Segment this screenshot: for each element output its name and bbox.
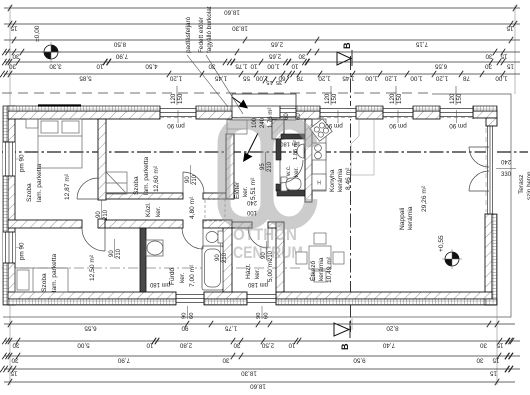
room label Etkezo (white box)	[306, 238, 333, 283]
svg-text:210: 210	[268, 250, 274, 261]
svg-text:12,50 m²: 12,50 m²	[89, 254, 96, 281]
south band wall piece 2	[105, 220, 183, 228]
svg-text:90: 90	[261, 252, 267, 259]
svg-text:pm 180: pm 180	[247, 281, 268, 287]
svg-text:30: 30	[12, 341, 20, 348]
svg-text:90: 90	[182, 313, 188, 319]
svg-text:30: 30	[222, 356, 230, 363]
bed Szoba3	[15, 268, 68, 292]
svg-text:90: 90	[215, 254, 221, 261]
kitchen counter	[312, 119, 326, 191]
level marker 0,00	[44, 45, 58, 59]
bathtub Furdo	[202, 246, 223, 290]
svg-text:15: 15	[10, 24, 18, 31]
svg-text:szín beton: szín beton	[526, 171, 530, 200]
corridor north wall east part	[203, 193, 226, 199]
lintel mark over top wall	[38, 104, 81, 106]
bottom window size labels 90/60	[187, 306, 189, 319]
svg-text:10: 10	[96, 62, 104, 69]
svg-text:pm 90: pm 90	[19, 154, 26, 172]
kitchen sink	[312, 143, 326, 160]
corridor north wall west part	[106, 193, 183, 199]
svg-text:30: 30	[485, 62, 493, 69]
svg-text:fagyálló burkolat: fagyálló burkolat	[206, 6, 213, 53]
window bottom Furdo 90/60	[176, 292, 204, 305]
svg-text:90: 90	[256, 313, 262, 319]
dimension row top total y=8	[4, 7, 520, 9]
svg-text:1,75: 1,75	[235, 62, 248, 69]
svg-text:Fedett előtér: Fedett előtér	[198, 16, 205, 53]
svg-text:pm 180: pm 180	[149, 281, 170, 287]
dining table Etkezo	[296, 233, 344, 282]
WC / Konyha wall	[305, 119, 312, 202]
door WC	[279, 160, 281, 183]
svg-text:pm 90: pm 90	[167, 122, 185, 129]
toilet WC room	[281, 177, 287, 191]
svg-text:1,00: 1,00	[495, 74, 508, 81]
svg-text:7,90: 7,90	[117, 356, 130, 363]
svg-text:8,46 m²: 8,46 m²	[345, 167, 352, 190]
bottom-right corner join	[485, 299, 497, 305]
dimension row top row6 y=74	[4, 73, 520, 75]
svg-text:78: 78	[463, 74, 471, 81]
svg-text:5,00 m²: 5,00 m²	[267, 259, 274, 282]
closet Elotér	[227, 120, 247, 134]
svg-text:1,00: 1,00	[365, 74, 378, 81]
svg-text:5,85: 5,85	[79, 74, 92, 81]
svg-text:6,55: 6,55	[434, 62, 447, 69]
svg-text:OTTHON: OTTHON	[233, 225, 297, 244]
svg-text:10: 10	[288, 341, 296, 348]
top outer wall segment 3 (WC)	[296, 111, 320, 119]
svg-text:15: 15	[507, 62, 515, 69]
svg-text:3,30: 3,30	[49, 62, 62, 69]
svg-text:2,80: 2,80	[179, 341, 192, 348]
main horizontal axis A	[2, 151, 528, 153]
svg-text:pm 90: pm 90	[19, 242, 26, 260]
svg-text:90: 90	[181, 324, 189, 331]
wardrobe Szoba2	[106, 172, 127, 194]
window size label 120/150	[330, 86, 332, 105]
svg-text:1,00: 1,00	[267, 62, 280, 69]
svg-text:Szoba: Szoba	[133, 176, 140, 195]
eaves outline right solid	[3, 94, 511, 317]
svg-text:30: 30	[298, 52, 306, 59]
svg-text:Étkező: Étkező	[308, 261, 317, 281]
svg-text:7,15: 7,15	[415, 40, 428, 47]
svg-text:±0,00: ±0,00	[34, 25, 41, 42]
window bottom Hazt 90/60	[247, 292, 276, 305]
svg-text:ker.: ker.	[179, 272, 186, 283]
WC west wall stub lower	[276, 184, 281, 191]
svg-text:10: 10	[146, 341, 154, 348]
svg-text:15: 15	[506, 24, 514, 31]
section marker B bottom	[334, 323, 349, 336]
svg-text:H: H	[317, 181, 321, 187]
svg-text:Közl.: Közl.	[145, 202, 152, 217]
top outer wall segment 2	[196, 111, 232, 119]
section line B-B vertical	[350, 56, 352, 332]
svg-text:100: 100	[252, 117, 258, 128]
svg-text:90: 90	[96, 211, 102, 218]
svg-text:ker.: ker.	[155, 206, 162, 217]
svg-text:4,80 m²: 4,80 m²	[189, 196, 196, 219]
svg-text:Szoba: Szoba	[26, 183, 33, 202]
svg-text:B: B	[342, 42, 352, 49]
dimension row top row5 y=62	[4, 61, 520, 63]
fridge	[312, 174, 326, 190]
svg-text:210: 210	[267, 161, 273, 172]
svg-text:210: 210	[116, 248, 122, 259]
window size label 120/150	[395, 86, 397, 105]
Szoba3/Furdo divider wall	[140, 228, 146, 292]
Eloter west wall	[226, 134, 234, 199]
svg-text:15: 15	[266, 79, 272, 85]
svg-text:8,20: 8,20	[386, 324, 399, 331]
svg-text:18,30: 18,30	[232, 24, 248, 31]
svg-text:1,20: 1,20	[384, 74, 397, 81]
svg-text:2,50: 2,50	[261, 341, 274, 348]
top outer wall segment 5	[413, 111, 440, 119]
dimension row top thirds y=40	[4, 39, 520, 41]
svg-text:15: 15	[500, 52, 508, 59]
svg-text:pm 90: pm 90	[325, 122, 343, 129]
kitchen stove	[310, 119, 332, 141]
watermark big C	[267, 123, 311, 223]
svg-text:29,26 m²: 29,26 m²	[421, 185, 428, 212]
svg-text:30: 30	[476, 356, 484, 363]
WC south wall	[277, 190, 312, 196]
roof eaves dashed line top	[2, 92, 432, 94]
svg-text:Konyha: Konyha	[329, 169, 336, 192]
svg-text:30: 30	[11, 356, 19, 363]
svg-text:5,00: 5,00	[77, 341, 90, 348]
window size label 120/150	[176, 86, 178, 105]
svg-text:kerámia: kerámia	[407, 206, 414, 230]
Hazt north wall west piece	[232, 222, 252, 228]
svg-text:1,20: 1,20	[169, 74, 182, 81]
south band wall piece 3	[203, 220, 232, 228]
door Szoba3	[104, 228, 106, 251]
dimension row bottom row4 y=369	[4, 368, 520, 370]
svg-text:30: 30	[233, 341, 241, 348]
svg-text:lam. parketta: lam. parketta	[143, 157, 150, 195]
svg-text:2,65: 2,65	[268, 52, 281, 59]
bed Szoba1	[26, 119, 82, 168]
svg-text:1,20: 1,20	[318, 74, 331, 81]
south band wall Szoba1/Szoba3	[8, 220, 82, 228]
svg-text:78: 78	[296, 74, 304, 81]
level marker +0,55	[445, 252, 459, 266]
svg-text:120: 120	[449, 93, 456, 104]
svg-text:12,87 m²: 12,87 m²	[64, 173, 71, 200]
svg-text:30: 30	[480, 341, 488, 348]
svg-text:ker.: ker.	[254, 268, 261, 279]
svg-text:pm 180: pm 180	[280, 140, 299, 146]
svg-text:30: 30	[208, 62, 216, 69]
svg-text:150: 150	[456, 93, 463, 104]
svg-text:8,50: 8,50	[113, 40, 126, 47]
svg-text:330: 330	[501, 172, 512, 178]
entry arrow inside Elotér	[247, 133, 258, 155]
svg-text:10,49 m²: 10,49 m²	[326, 256, 333, 283]
svg-text:60: 60	[284, 113, 290, 120]
svg-text:12,60 m²: 12,60 m²	[153, 165, 160, 192]
svg-text:18,60: 18,60	[224, 8, 240, 15]
svg-text:60: 60	[296, 113, 302, 120]
svg-text:210: 210	[192, 174, 198, 185]
entrance front glazing line	[232, 117, 296, 119]
left outer wall	[8, 106, 15, 305]
svg-text:1,20: 1,20	[435, 74, 448, 81]
svg-text:30: 30	[9, 62, 17, 69]
attic hatch dashed	[205, 199, 225, 221]
svg-text:ker.: ker.	[293, 167, 300, 177]
svg-text:lam. parketta: lam. parketta	[51, 254, 58, 292]
Hazt north wall east piece	[268, 222, 284, 228]
svg-text:+0,55: +0,55	[438, 235, 445, 252]
dimension row bottom row2 y=341	[4, 340, 520, 342]
top-right corner pillar	[473, 111, 497, 118]
svg-text:210: 210	[222, 252, 228, 263]
secondary horizontal axis	[2, 267, 300, 269]
door Szoba2	[182, 172, 184, 193]
terrace french door leaves	[469, 146, 489, 148]
svg-text:B: B	[340, 343, 350, 350]
svg-text:18,30: 18,30	[241, 369, 257, 376]
svg-text:Házt.: Házt.	[245, 263, 252, 279]
svg-text:15: 15	[10, 369, 18, 376]
svg-text:5,51 m²: 5,51 m²	[250, 177, 257, 200]
svg-text:Nappali: Nappali	[399, 207, 406, 230]
svg-text:Szoba: Szoba	[41, 273, 48, 292]
svg-text:ker.: ker.	[242, 186, 249, 197]
door Furdo	[202, 228, 204, 249]
dimension row top row4 y=52	[4, 51, 520, 53]
svg-text:2,65: 2,65	[270, 40, 283, 47]
svg-text:4,50: 4,50	[145, 62, 158, 69]
kitchen floor area boundary	[351, 119, 374, 175]
WC north pier (hatched)	[272, 119, 284, 139]
window left Szoba3	[3, 232, 15, 263]
bottom outer wall segment 3	[276, 292, 492, 299]
svg-text:60: 60	[264, 313, 270, 319]
entry arrow at porch	[232, 97, 243, 105]
door Szoba1	[77, 198, 98, 200]
window left Szoba1	[3, 142, 15, 176]
section marker B top	[337, 52, 351, 65]
svg-text:90: 90	[185, 176, 191, 183]
svg-text:55: 55	[243, 74, 251, 81]
svg-text:Terasz: Terasz	[518, 175, 525, 194]
window W3 Nappali 120/150	[383, 106, 413, 119]
window W1 Szoba2 120/150	[160, 106, 196, 119]
top outer wall segment 1	[8, 111, 160, 119]
svg-text:240: 240	[260, 117, 266, 128]
svg-text:1,45: 1,45	[342, 74, 355, 81]
top outer wall pier 4	[356, 111, 383, 119]
svg-text:Előtér: Előtér	[234, 181, 241, 199]
svg-text:1,75: 1,75	[224, 324, 237, 331]
svg-text:120: 120	[324, 93, 331, 104]
right glazed wall / terrace door band	[486, 126, 494, 214]
entrance porch slab	[232, 94, 296, 106]
svg-text:15: 15	[492, 356, 500, 363]
interior wall between Szoba1 and Szoba2	[98, 119, 106, 200]
svg-text:120: 120	[170, 93, 177, 104]
svg-text:120: 120	[389, 93, 396, 104]
svg-text:9,50: 9,50	[353, 356, 366, 363]
Hazt east wall	[276, 222, 284, 292]
bottom outer wall segment 2	[204, 292, 247, 299]
window size label 120/150	[455, 86, 457, 105]
toilet Furdo	[206, 232, 218, 243]
WC north thin wall	[281, 134, 307, 139]
Furdo east wall	[223, 228, 232, 292]
window W4 Nappali 120/150	[440, 106, 473, 119]
svg-text:1,00: 1,00	[410, 74, 423, 81]
right outer wall lower	[485, 214, 492, 305]
svg-text:30: 30	[12, 52, 20, 59]
svg-text:18,60: 18,60	[250, 382, 266, 389]
svg-text:10: 10	[250, 62, 258, 69]
watermark big O	[224, 123, 311, 262]
svg-text:7,40: 7,40	[382, 341, 395, 348]
edge double slashes	[2, 49, 6, 55]
dimension row bottom row1 y=324	[4, 323, 515, 325]
svg-text:60: 60	[189, 313, 195, 319]
svg-text:150: 150	[177, 93, 184, 104]
svg-text:90: 90	[109, 250, 115, 257]
window centre ticks	[177, 110, 179, 123]
svg-text:15: 15	[496, 341, 504, 348]
svg-text:7,90: 7,90	[115, 52, 128, 59]
dimension row top 18,30 y=24	[4, 23, 520, 25]
svg-text:1,45: 1,45	[214, 74, 227, 81]
svg-text:35: 35	[276, 79, 282, 85]
WC west wall stub upper	[276, 139, 281, 160]
svg-text:150: 150	[331, 93, 338, 104]
svg-text:7,00 m²: 7,00 m²	[189, 264, 196, 287]
interior wall stub below Szoba1 door	[98, 219, 106, 228]
svg-text:10: 10	[291, 62, 299, 69]
bottom outer wall segment 1	[8, 292, 176, 299]
svg-text:kerámia: kerámia	[337, 168, 344, 192]
washbasin Furdo	[147, 241, 163, 255]
svg-text:95: 95	[260, 163, 266, 170]
svg-text:15: 15	[490, 369, 498, 376]
svg-text:150: 150	[396, 93, 403, 104]
svg-text:240: 240	[246, 199, 257, 205]
door Hazt	[267, 228, 269, 248]
window WC 60/60	[280, 106, 296, 119]
svg-text:padlásfeljáró: padlásfeljáró	[185, 16, 192, 53]
dimension row bottom row5 y=382	[4, 381, 515, 383]
dashed boundary line through terrace door	[485, 128, 487, 212]
washbasin WC room	[297, 144, 304, 158]
svg-text:pm 90: pm 90	[449, 122, 467, 129]
svg-text:100: 100	[246, 209, 257, 215]
svg-text:w.c.: w.c.	[285, 165, 292, 177]
dimension row bottom row3 y=356	[4, 355, 520, 357]
svg-text:210: 210	[103, 209, 109, 220]
window W2 Konyha 120/150	[320, 106, 356, 119]
svg-text:lam. parketta: lam. parketta	[36, 164, 43, 202]
svg-text:1,76 m²: 1,76 m²	[268, 108, 274, 128]
svg-text:kerámia: kerámia	[318, 257, 325, 281]
svg-text:6,55: 6,55	[84, 324, 97, 331]
svg-text:240: 240	[500, 158, 511, 164]
svg-text:30: 30	[485, 52, 493, 59]
